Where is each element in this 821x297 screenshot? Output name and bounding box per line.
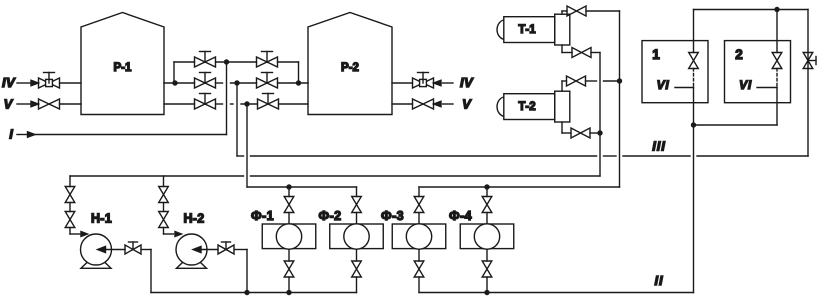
valve Ф-4 bottom xyxy=(482,261,492,277)
valve row2 left xyxy=(195,73,216,89)
wire P-2 to V valve xyxy=(392,103,413,105)
pump H-1 assembly xyxy=(69,176,71,187)
wire row2 mid-b xyxy=(231,82,257,84)
wire T-2 bottom to riser D xyxy=(590,132,600,134)
valve in box 1 xyxy=(689,53,699,69)
node row2 at P-1 xyxy=(172,80,177,85)
wire T-2 top a xyxy=(586,80,597,82)
svg-text:Т-2: Т-2 xyxy=(518,101,535,113)
node row3 junction xyxy=(244,101,249,106)
wire T-2 top stub xyxy=(562,81,567,91)
wire row1 to P-2 riser xyxy=(278,62,299,83)
wire line III xyxy=(237,155,808,157)
wire Ф-4 top stub xyxy=(486,213,488,226)
wire stream I horizontal xyxy=(35,134,227,136)
heat exchanger T-1 xyxy=(497,14,570,45)
arrow V outlet xyxy=(434,101,454,107)
filter Ф-3 assembly xyxy=(418,187,420,197)
valve Ф-3 bottom xyxy=(414,261,424,277)
valve H-2 suction upper xyxy=(159,187,169,203)
node bottom H-2 xyxy=(244,290,249,295)
stream label III xyxy=(652,139,666,154)
wire riser E (T top down to filter header) xyxy=(619,11,621,187)
wire riser H (right valve down to line III) xyxy=(807,10,809,157)
wire riser row3 to filter header xyxy=(246,104,248,187)
valve T-2 top xyxy=(567,76,586,86)
svg-text:III: III xyxy=(652,139,666,154)
wire dashed impulse line box2 xyxy=(776,69,778,88)
wire Ф-4 to bottom line xyxy=(486,277,488,293)
pump H-1 xyxy=(81,212,126,269)
wire T-1 top to line xyxy=(562,11,567,14)
box 2 xyxy=(725,41,791,103)
valve Ф-3 top xyxy=(414,197,424,213)
node T-2 bottom at riser D xyxy=(597,130,602,135)
wire riser row2 to line III xyxy=(236,83,238,156)
filter Ф-3 xyxy=(381,209,446,249)
valve H-1 suction upper xyxy=(65,187,75,203)
wire VI tap box2 xyxy=(757,87,777,89)
valve in box 2 xyxy=(772,53,782,69)
wire riser stream I to row1 xyxy=(226,62,228,135)
wire row2 mid-a xyxy=(216,82,223,84)
svg-text:1: 1 xyxy=(652,47,660,62)
wire row2 from P-1 xyxy=(164,82,195,84)
pump H-2 xyxy=(176,212,218,269)
valve row2 right xyxy=(257,73,278,89)
svg-text:IV: IV xyxy=(2,75,16,90)
wire between H-2 suction valves xyxy=(163,203,165,212)
box 1 xyxy=(642,41,708,103)
wire bottom line II segment xyxy=(419,292,694,294)
wire Ф-2 top stub xyxy=(356,213,358,226)
valve row1 left xyxy=(195,52,216,68)
stream label IV (right) xyxy=(460,75,474,90)
valve row3 left xyxy=(195,94,216,110)
svg-text:Т-1: Т-1 xyxy=(518,24,536,36)
valve on stream IV (right control valve) xyxy=(413,73,434,89)
svg-text:VI: VI xyxy=(739,78,752,92)
stream label VI (box2) xyxy=(739,78,752,92)
wire IV valve to P-1 xyxy=(60,82,82,84)
filter Ф-4 assembly xyxy=(486,187,488,197)
wire top header to boxes xyxy=(694,9,809,11)
node bottom F1 xyxy=(286,290,291,295)
wire VI tap box1 xyxy=(675,87,694,89)
wire row1 mid xyxy=(216,61,257,63)
wire row3 mid-c xyxy=(241,103,258,105)
wire Ф-3 bottom stub xyxy=(418,249,420,261)
wire T-1 bottom to riser D xyxy=(591,52,600,54)
wire H-1 suction elbow xyxy=(70,228,88,237)
valve on stream IV (left control valve) xyxy=(39,73,60,89)
valve Ф-2 top xyxy=(352,197,362,213)
stream label V (left) xyxy=(4,97,14,112)
wire bottom line left segment xyxy=(151,292,357,294)
svg-text:Н-1: Н-1 xyxy=(91,212,112,226)
wire row2 to P-2 xyxy=(278,82,309,84)
wire T-1 top to riser E xyxy=(586,10,620,12)
node below box1 xyxy=(691,122,696,127)
svg-text:Ф-3: Ф-3 xyxy=(381,209,404,223)
svg-text:Р-1: Р-1 xyxy=(114,62,133,74)
wire Ф-3 to bottom line xyxy=(418,277,420,293)
node row2 at P-2 xyxy=(296,80,301,85)
valve H-2 discharge xyxy=(218,242,234,254)
heat exchanger T-2 xyxy=(497,91,570,122)
valve row1 right xyxy=(257,52,278,68)
arrow IV outlet xyxy=(434,80,454,86)
node filter header F4 xyxy=(484,184,489,189)
filter Ф-1 xyxy=(251,209,316,249)
wire P-2 to IV valve xyxy=(392,82,413,84)
node filter header F1 xyxy=(286,184,291,189)
wire T-2 top b xyxy=(604,80,620,82)
wire T-1 bottom stub xyxy=(562,45,572,53)
valve Ф-4 top xyxy=(482,197,492,213)
filter Ф-2 assembly xyxy=(356,187,358,197)
node bottom F4 xyxy=(484,290,489,295)
stream label VI (box1) xyxy=(657,78,670,92)
wire Ф-2 to bottom line xyxy=(356,277,358,293)
wire H-2 suction elbow xyxy=(164,228,182,237)
valve right of box 2 (with side stem) xyxy=(803,53,816,69)
stream label I xyxy=(9,127,13,142)
wire filter header right segment xyxy=(419,186,620,188)
node row2 junction xyxy=(234,80,239,85)
stream label II xyxy=(654,273,663,288)
valve Ф-1 bottom xyxy=(284,261,294,277)
vessel P-2 xyxy=(308,13,392,115)
wire dashed impulse line box1 xyxy=(693,69,695,88)
vessel P-1 xyxy=(81,13,164,115)
wire Ф-1 bottom stub xyxy=(288,249,290,261)
wire Ф-2 bottom stub xyxy=(356,249,358,261)
wire below boxes xyxy=(694,88,778,293)
node row1 junction xyxy=(224,59,229,64)
svg-text:V: V xyxy=(462,97,472,112)
svg-text:2: 2 xyxy=(735,47,743,62)
wire row3 to P-2 xyxy=(279,103,309,105)
valve row3 right xyxy=(258,94,279,110)
wire Ф-4 bottom stub xyxy=(486,249,488,261)
valve on stream V (right) xyxy=(413,99,434,109)
arrow I inlet xyxy=(17,132,35,138)
wire riser D (T side down to pump header) xyxy=(599,53,601,177)
svg-text:II: II xyxy=(654,273,663,288)
svg-text:Ф-2: Ф-2 xyxy=(319,209,342,223)
valve T-1 bottom xyxy=(572,48,591,58)
svg-text:I: I xyxy=(9,127,13,142)
wire row1 P-1 riser xyxy=(174,62,195,83)
wire row3 from P-1 xyxy=(164,103,195,105)
svg-text:VI: VI xyxy=(657,78,670,92)
wire row3 mid-a xyxy=(216,103,223,105)
valve T-1 top xyxy=(567,6,586,16)
wire Ф-1 to bottom line xyxy=(288,277,290,293)
svg-text:Н-2: Н-2 xyxy=(183,212,204,226)
wire into box1 valve xyxy=(693,10,695,53)
svg-text:Ф-1: Ф-1 xyxy=(251,209,274,223)
wire T-2 bottom stub xyxy=(562,122,571,133)
wire Ф-1 top stub xyxy=(288,213,290,226)
wire H-2 discharge xyxy=(234,250,247,293)
wire filter header left segment xyxy=(247,186,357,188)
valve H-2 suction lower xyxy=(159,212,169,228)
node T-2 top at riser E xyxy=(617,78,622,83)
valve H-1 suction lower xyxy=(65,212,75,228)
wire pump suction header xyxy=(70,175,600,177)
svg-text:IV: IV xyxy=(460,75,474,90)
wire row3 mid-b xyxy=(231,103,234,105)
filter Ф-4 xyxy=(449,209,514,249)
stream label IV (left) xyxy=(2,75,16,90)
wire H-1 discharge xyxy=(141,250,151,293)
svg-text:Р-2: Р-2 xyxy=(341,62,359,74)
valve Ф-2 bottom xyxy=(352,261,362,277)
arrow V inlet xyxy=(17,101,39,107)
wire between H-1 suction valves xyxy=(69,203,71,212)
wire V valve to P-1 xyxy=(60,103,82,105)
valve Ф-1 top xyxy=(284,197,294,213)
node top header box2 branch xyxy=(774,7,779,12)
svg-text:V: V xyxy=(4,97,14,112)
wire Ф-3 top stub xyxy=(418,213,420,226)
wire into box2 valve xyxy=(776,10,778,53)
valve on stream V (left) xyxy=(39,99,60,109)
stream label V (right) xyxy=(462,97,472,112)
pump H-2 assembly xyxy=(163,176,165,187)
arrow IV inlet xyxy=(17,80,39,86)
valve H-1 discharge xyxy=(125,242,141,254)
filter Ф-1 assembly xyxy=(288,187,290,197)
filter Ф-2 xyxy=(319,209,384,249)
valve T-2 bottom xyxy=(571,128,590,138)
svg-text:Ф-4: Ф-4 xyxy=(449,209,472,223)
